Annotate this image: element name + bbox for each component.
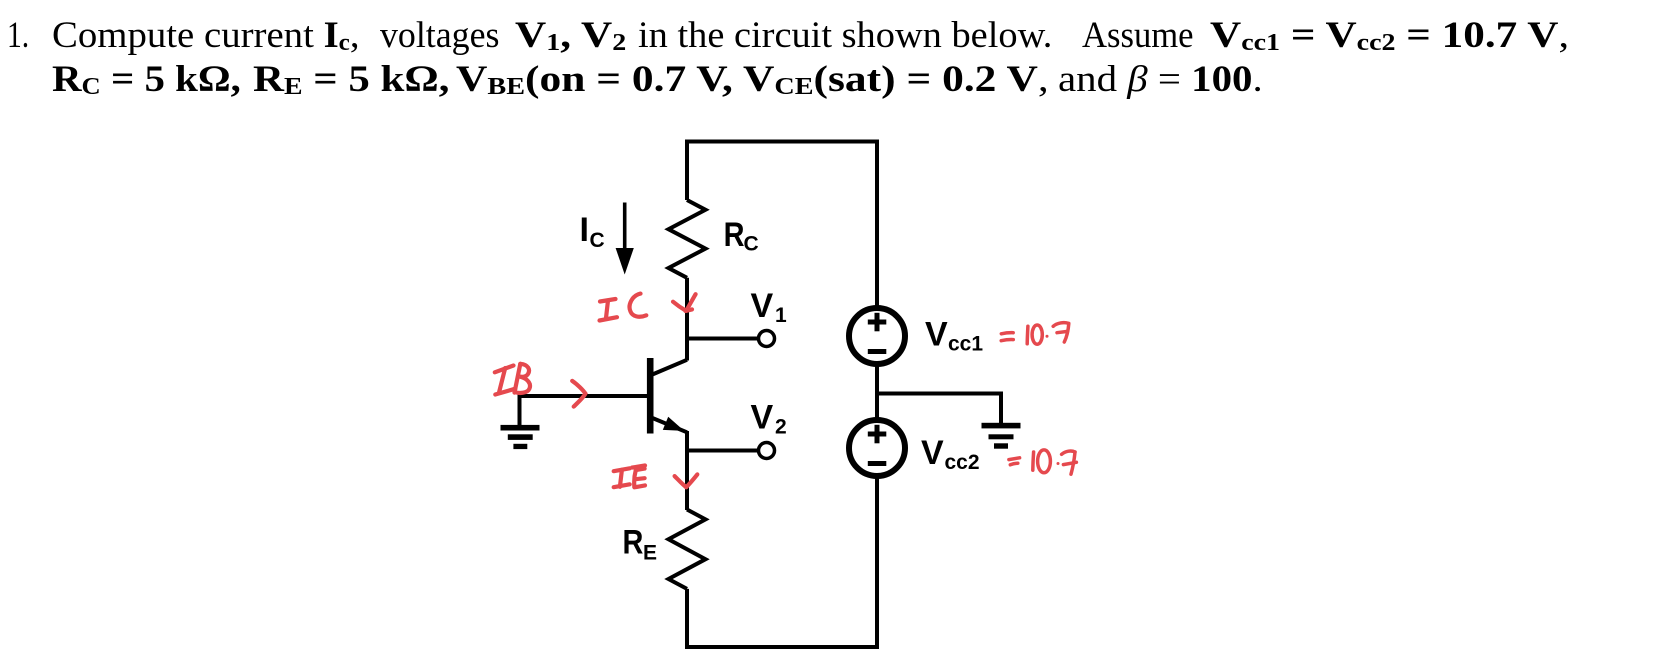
- annotation Vcc2 value = 10.7: [1009, 450, 1077, 474]
- svg-text:cc1: cc1: [948, 333, 983, 356]
- source Vcc1 circle: [849, 308, 905, 364]
- svg-text:C: C: [744, 233, 759, 256]
- wire: V1 tap: [687, 337, 759, 341]
- problem statement line 1: [7, 17, 29, 54]
- problem statement line 2: [52, 61, 241, 98]
- wire: base ground lead: [518, 394, 522, 425]
- label V1: [751, 287, 788, 327]
- source Vcc2 plus: [868, 425, 887, 444]
- label RE: [623, 522, 657, 564]
- transistor Q1 emitter lead: [650, 417, 687, 432]
- label RC: [724, 215, 759, 256]
- label Vcc1: [925, 316, 983, 356]
- svg-text:V: V: [925, 316, 948, 354]
- annotation Vcc1 value = 10.7: [1001, 323, 1069, 345]
- transistor Q1 emitter arrowhead: [663, 417, 684, 431]
- ground (right): [982, 423, 1021, 449]
- svg-text:cc2: cc2: [945, 451, 980, 474]
- label Vcc2: [921, 434, 980, 474]
- label Ic (black): [580, 211, 605, 252]
- svg-text:C: C: [590, 229, 605, 252]
- svg-text:R: R: [724, 215, 745, 254]
- svg-text:V: V: [751, 287, 774, 325]
- wire: mid tap to ground: [877, 394, 1001, 424]
- svg-text:V: V: [921, 434, 944, 472]
- wire: base: [520, 394, 648, 398]
- annotation IE (handwritten): [614, 466, 645, 488]
- source Vcc2 minus: [868, 461, 887, 466]
- source Vcc1 plus: [868, 313, 887, 332]
- resistor RE: [669, 510, 706, 589]
- transistor Q1 collector lead: [650, 360, 687, 376]
- svg-text:R: R: [623, 522, 644, 561]
- arrow Ic (black, downward): [616, 203, 634, 275]
- svg-text:E: E: [643, 541, 657, 564]
- label V2: [751, 399, 787, 439]
- red annotations: [495, 294, 1077, 488]
- wire: bottom rail: [687, 475, 877, 647]
- wire: emitter vertical: [685, 431, 689, 510]
- annotation IC tick arrow: [673, 294, 696, 311]
- svg-text:2: 2: [775, 416, 787, 439]
- transistor Q1 base bar: [647, 358, 654, 434]
- source Vcc2 circle: [849, 420, 905, 476]
- resistor RC: [669, 200, 706, 278]
- svg-text:V: V: [751, 399, 774, 437]
- wire: between sources: [875, 364, 879, 421]
- annotation IC (handwritten): [600, 294, 647, 321]
- svg-text:1: 1: [775, 304, 787, 327]
- node V2 terminal circle: [759, 443, 775, 459]
- source Vcc1 minus: [868, 349, 887, 354]
- annotation IB chevron arrow: [572, 381, 585, 407]
- node V1 terminal circle: [759, 331, 775, 347]
- annotation IE tick arrow: [675, 474, 698, 487]
- wire: V2 tap: [687, 449, 759, 453]
- wire: collector vertical: [685, 278, 689, 361]
- wire: top rail with RC top lead and right branch top lead: [687, 142, 877, 310]
- annotation IB (handwritten): [495, 364, 530, 395]
- svg-text:I: I: [580, 211, 589, 249]
- ground (base): [501, 425, 540, 449]
